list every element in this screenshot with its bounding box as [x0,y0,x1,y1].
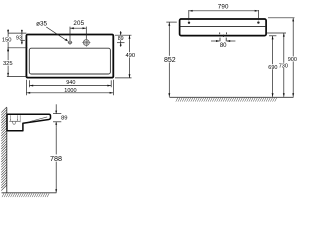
svg-text:325: 325 [3,61,13,67]
floor hatching (front view) [176,98,277,102]
svg-text:89: 89 [118,36,124,42]
svg-text:490: 490 [125,53,135,59]
faucet hole ø35 [68,40,73,45]
floor hatching (side view) [2,193,49,197]
left extension lines [7,33,28,76]
drain strainer (plan) [82,38,90,46]
svg-text:93: 93 [16,36,22,42]
dim 80 (drain width) [211,40,219,42]
right extension lines (front view) [267,18,295,36]
bottom extension lines (plan) [26,80,113,96]
drain marks on front view [220,32,227,41]
wall line [6,108,8,193]
svg-text:690: 690 [268,65,277,71]
dim 1000 (basin width) [26,92,113,94]
svg-text:1000: 1000 [64,88,76,94]
dim 93 (rim to faucet hole) [21,30,23,33]
dim 325 (bowl depth front) [7,48,9,77]
dim 89 (rim to drain, plan) [120,31,122,35]
dim 490 (basin depth) [129,35,131,78]
dim 690 (floor to basin underside) [272,36,274,97]
right extension lines [115,35,132,78]
svg-text:730: 730 [279,63,288,69]
svg-text:89: 89 [61,116,67,122]
dim 940 (bowl width) [29,85,111,87]
bowl bottom line (section) [28,117,47,122]
svg-text:900: 900 [288,57,297,63]
dim 205 (faucet hole to drain) [70,27,86,41]
svg-text:852: 852 [164,57,176,64]
wall hatching [1,107,7,191]
svg-text:940: 940 [66,80,75,86]
basin outer rim (plan) [26,35,113,78]
floor line (front view) [169,96,293,98]
mounting hole left [188,22,190,24]
dim 852 (floor to fixing holes) [166,21,177,23]
dim 900 (floor to rim top) [292,18,294,97]
dim 788 (underside to floor) [55,128,57,193]
dim 730 (floor to basin bottom edge) [283,33,285,97]
basin front elevation [180,19,267,36]
dim 150 (rim to bowl) [7,29,9,33]
floor line (side view) [2,192,57,194]
svg-text:150: 150 [2,38,12,44]
dim 790 (hole spacing) [189,10,259,20]
svg-text:80: 80 [220,43,227,49]
svg-text:ø35: ø35 [36,21,47,28]
inner trap detail [9,115,20,124]
svg-text:788: 788 [50,154,62,163]
dim 89 (front edge height, side view) [53,104,61,128]
basin inner bowl (plan) [29,48,110,74]
leader line for ø35 [46,27,67,41]
basin side profile [7,114,51,130]
svg-text:205: 205 [73,20,84,27]
mounting hole right [257,21,259,23]
svg-text:790: 790 [218,3,229,10]
front apron line [180,25,267,27]
